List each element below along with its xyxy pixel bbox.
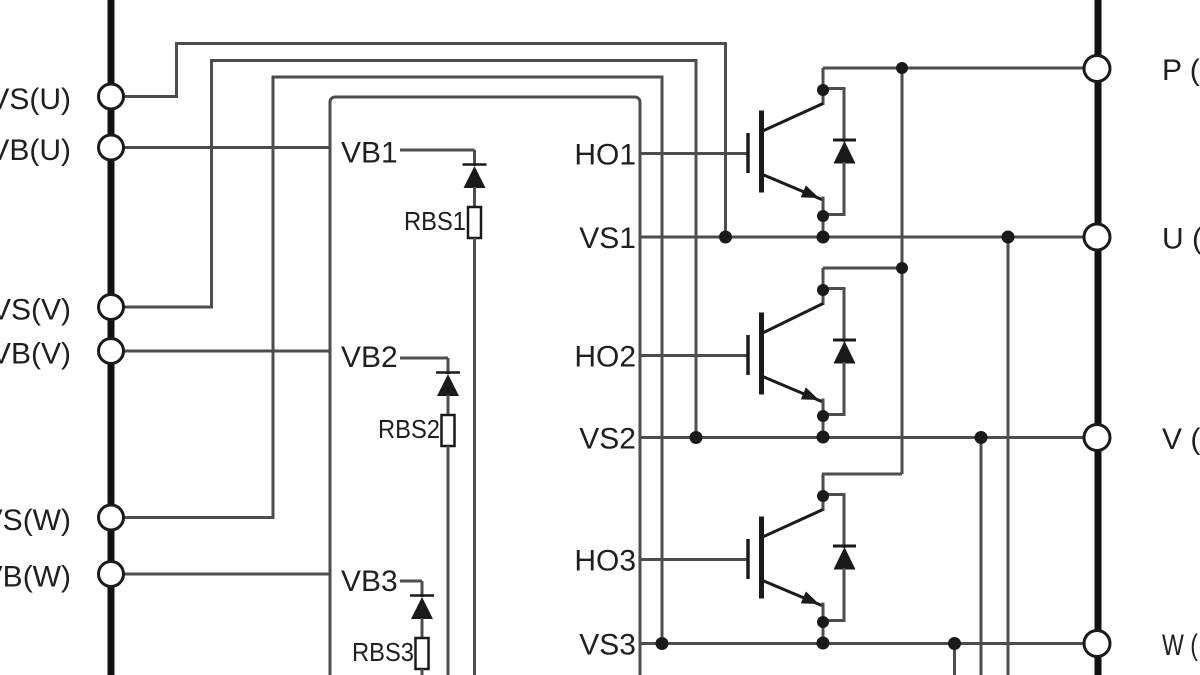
- svg-text:VB1: VB1: [341, 136, 398, 169]
- transistor Q1 collector lead: [762, 104, 824, 132]
- wire Q2 collector-diode top branch: [823, 289, 844, 301]
- wire HO2 gate output: [640, 354, 748, 357]
- wire VS2 net to V terminal: [640, 436, 1086, 439]
- diode DBS1 body: [464, 166, 486, 188]
- wire Q1 collector drop: [822, 68, 825, 105]
- diode D2 anode line: [843, 362, 846, 416]
- wire DBS3 anode to RBS3: [421, 618, 424, 639]
- wire RBS1 down-lead: [473, 238, 476, 675]
- junction VS1 sense: [719, 231, 732, 244]
- svg-text:RBS1: RBS1: [404, 206, 466, 236]
- terminal pin VB(W): [99, 562, 124, 587]
- wire VS3 net to W terminal: [640, 642, 1086, 645]
- terminal pin P: [1084, 56, 1110, 82]
- terminal pin VS(W): [99, 505, 124, 530]
- right power bus: [1095, 0, 1102, 675]
- transistor Q2 gate bar: [746, 335, 750, 375]
- diode DBS1 cathode bar: [463, 163, 487, 166]
- gate driver IC U1 box: [330, 97, 640, 675]
- junction Q3 emitter on VS line: [817, 637, 830, 650]
- transistor Q2 emitter lead: [762, 376, 824, 402]
- svg-text:RBS3: RBS3: [352, 637, 414, 667]
- terminal pin U: [1084, 224, 1110, 250]
- transistor Q1 emitter arrow: [801, 185, 822, 204]
- junction VS3 sense: [656, 637, 669, 650]
- svg-text:W (: W (: [1162, 629, 1198, 662]
- transistor Q3 emitter arrow: [801, 591, 822, 610]
- svg-text:VB3: VB3: [341, 565, 398, 598]
- svg-text:HO2: HO2: [574, 340, 636, 373]
- wire Q3 collector-diode top branch: [823, 495, 844, 507]
- wire VB(W) to pin VB3: [111, 573, 330, 576]
- svg-text:VB2: VB2: [341, 341, 398, 374]
- resistor RBS3: [416, 638, 429, 669]
- terminal pin VB(U): [99, 135, 124, 160]
- wire U phase down-lead: [1007, 237, 1010, 675]
- transistor Q2 emitter arrow: [801, 387, 822, 406]
- resistor RBS2: [442, 415, 455, 446]
- svg-text:VB(W): VB(W): [0, 560, 71, 593]
- wire P rail: [823, 67, 1086, 70]
- junction Q2 emitter on VS line: [817, 431, 830, 444]
- terminal pin VS(V): [99, 295, 124, 320]
- diode D2 cathode bar: [833, 339, 856, 342]
- svg-text:VS2: VS2: [579, 422, 636, 455]
- diode DBS2 cathode bar: [436, 371, 460, 374]
- wire Q3 collector branch: [822, 473, 902, 476]
- wire VB1 stub: [400, 149, 475, 152]
- svg-text:VS3: VS3: [579, 628, 636, 661]
- wire V phase down-lead: [980, 438, 983, 675]
- diode D2 cathode line: [843, 298, 846, 342]
- junction P rail riser: [896, 62, 908, 74]
- junction Q1 emitter on VS line: [817, 231, 830, 244]
- diode D2 body: [834, 341, 856, 364]
- wire VB2 stub: [400, 357, 448, 360]
- wire Q1 emitter to VS node: [822, 197, 825, 238]
- wire HO3 gate output: [640, 558, 748, 561]
- wire DBS2 anode to RBS2: [447, 395, 450, 416]
- terminal pin W: [1084, 631, 1110, 657]
- wire Q2 collector branch: [823, 267, 902, 270]
- junction W phase: [948, 637, 961, 650]
- diode D3 body: [834, 547, 856, 570]
- transistor Q3 gate bar: [746, 539, 750, 579]
- svg-text:P (: P (: [1162, 54, 1200, 87]
- svg-text:VB(U): VB(U): [0, 134, 71, 167]
- junction Q1 collector: [817, 84, 829, 96]
- junction V phase: [975, 431, 988, 444]
- wire Q3 emitter to VS node: [822, 603, 825, 644]
- wire RBS3 down-lead: [421, 669, 424, 675]
- wire Q3 collector drop: [822, 474, 825, 511]
- wire Q1 emitter-diode bottom branch: [823, 213, 844, 216]
- junction Q2 emitter: [817, 410, 829, 422]
- svg-text:VS(U): VS(U): [0, 83, 71, 116]
- transistor Q3 collector lead: [762, 510, 824, 538]
- svg-text:U (: U (: [1162, 222, 1200, 255]
- junction VS2 sense: [690, 431, 703, 444]
- svg-text:VS(V): VS(V): [0, 293, 71, 326]
- transistor Q3 body bar: [759, 517, 764, 599]
- wire DBS1 anode to RBS1: [473, 187, 476, 208]
- svg-text:VB(V): VB(V): [0, 337, 71, 370]
- junction Q2 collector riser: [896, 262, 908, 274]
- terminal pin VB(V): [99, 339, 124, 364]
- wire VB3 to diode DBS3: [421, 581, 424, 597]
- diode DBS3 body: [411, 597, 433, 619]
- left power bus: [108, 0, 115, 675]
- junction Q1 emitter: [817, 210, 829, 222]
- junction Q3 emitter: [817, 616, 829, 628]
- terminal pin V: [1084, 425, 1110, 451]
- wire collector riser to P: [901, 68, 904, 474]
- transistor Q1 gate bar: [746, 133, 750, 173]
- wire Q2 emitter to VS node: [822, 399, 825, 438]
- svg-text:RBS2: RBS2: [378, 414, 440, 444]
- transistor Q1 emitter lead: [762, 174, 824, 200]
- diode DBS3 cathode bar: [410, 594, 434, 597]
- diode D3 cathode bar: [833, 545, 856, 548]
- wire Q2 collector drop: [822, 268, 825, 305]
- svg-text:HO1: HO1: [574, 138, 636, 171]
- wire HO1 gate output: [640, 152, 748, 155]
- wire Q3 emitter-diode bottom branch: [823, 619, 844, 622]
- wire Q1 collector-diode top branch: [823, 89, 844, 101]
- diode D3 cathode line: [843, 504, 846, 548]
- transistor Q2 body bar: [759, 313, 764, 395]
- wire W phase down-lead: [953, 644, 956, 675]
- diode D3 anode line: [843, 568, 846, 622]
- wire VB(V) to pin VB2: [111, 350, 330, 353]
- wire VS(V) sense line to node VS2: [111, 61, 696, 438]
- diode D1 cathode bar: [833, 139, 856, 142]
- wire VB3 stub: [400, 580, 422, 583]
- terminal pin VS(U): [99, 84, 124, 109]
- wire VS(U) sense line to node VS1: [111, 44, 726, 238]
- junction Q3 collector: [817, 490, 829, 502]
- wire RBS2 down-lead: [447, 446, 450, 675]
- junction Q2 collector: [817, 284, 829, 296]
- transistor Q1 body bar: [759, 111, 764, 193]
- diode D1 cathode line: [843, 98, 846, 142]
- diode D1 anode line: [843, 162, 846, 216]
- diode D1 body: [834, 141, 856, 164]
- transistor Q3 emitter lead: [762, 580, 824, 606]
- wire VB2 to diode DBS2: [447, 358, 450, 374]
- wire VS1 net to U terminal: [640, 236, 1086, 239]
- svg-text:VS(W): VS(W): [0, 504, 71, 537]
- svg-text:HO3: HO3: [574, 544, 636, 577]
- transistor Q2 collector lead: [762, 304, 824, 334]
- wire VS(W) sense line to node VS3: [111, 77, 662, 644]
- wire Q2 emitter-diode bottom branch: [823, 413, 844, 416]
- junction U phase: [1002, 231, 1015, 244]
- diode DBS2 body: [437, 374, 459, 396]
- svg-text:VS1: VS1: [579, 222, 636, 255]
- wire VB(U) to pin VB1: [111, 146, 330, 149]
- svg-text:V (: V (: [1162, 423, 1200, 456]
- wire VB1 to diode DBS1: [473, 150, 476, 166]
- resistor RBS1: [468, 207, 481, 238]
